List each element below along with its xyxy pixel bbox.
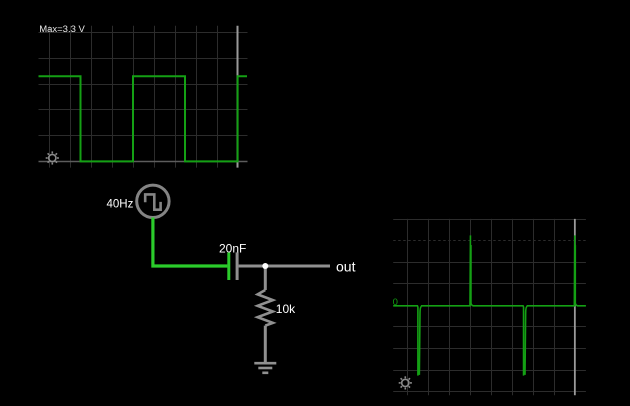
wire resistor to ground (gray) bbox=[264, 326, 267, 362]
svg-text:20nF: 20nF bbox=[219, 241, 246, 255]
scope 2 grid horizontals bbox=[393, 220, 586, 392]
svg-text:out: out bbox=[336, 259, 356, 275]
wire capacitor to out (gray) bbox=[239, 265, 330, 268]
voltage source V1 square-wave glyph bbox=[145, 194, 160, 209]
scope 2 gear icon bbox=[399, 376, 412, 389]
scope 1 grid verticals bbox=[50, 26, 218, 168]
svg-text:10k: 10k bbox=[276, 302, 296, 316]
wire node to resistor (gray) bbox=[264, 266, 267, 290]
svg-text:40Hz: 40Hz bbox=[107, 199, 134, 211]
svg-text:Max=3.3 V: Max=3.3 V bbox=[39, 24, 85, 35]
scope 1 gear icon bbox=[46, 151, 59, 164]
scope 2 trace (differentiated spikes) bbox=[393, 235, 586, 375]
scope 1 zero-volt baseline bbox=[39, 161, 248, 163]
svg-text:0: 0 bbox=[393, 297, 398, 308]
scope 2 grid verticals bbox=[408, 219, 555, 395]
scope 1 trace (3.3V square wave) bbox=[39, 76, 248, 161]
scope 2 sweep cursor line bbox=[574, 219, 576, 395]
node junction dot bbox=[262, 263, 268, 269]
voltage source V1 circle (40Hz square source) bbox=[137, 185, 169, 217]
wire source to capacitor (green, high voltage) bbox=[153, 218, 228, 267]
capacitor C1 left plate (green) bbox=[227, 252, 230, 280]
resistor R1 zigzag bbox=[258, 290, 273, 326]
scope 2 dashed gridline bbox=[393, 240, 586, 242]
ground symbol bbox=[254, 363, 276, 373]
scope 1 grid horizontals bbox=[39, 33, 248, 136]
capacitor C1 right plate (gray) bbox=[236, 252, 239, 280]
scope 1 sweep cursor line bbox=[237, 26, 239, 168]
